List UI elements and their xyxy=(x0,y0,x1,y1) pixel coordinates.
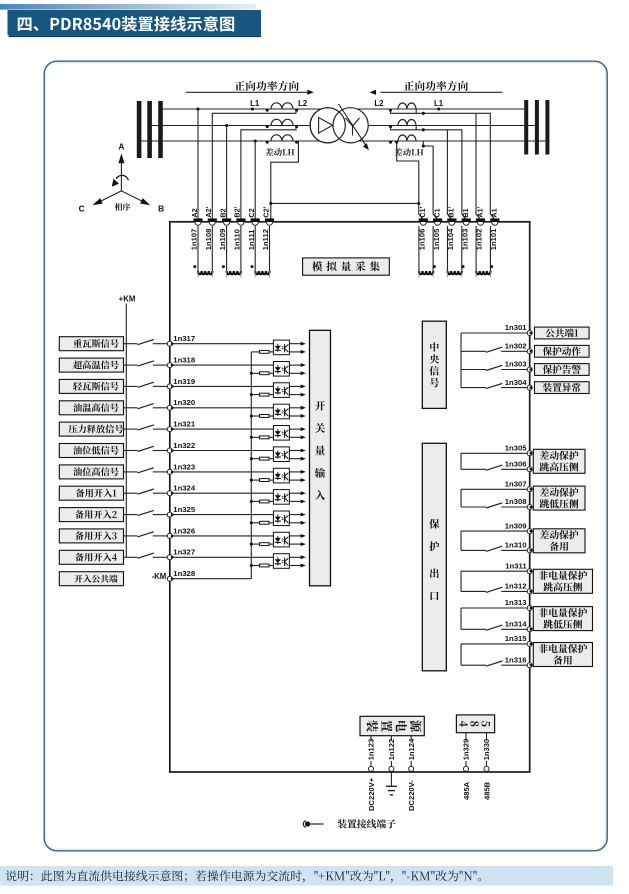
svg-text:1n318: 1n318 xyxy=(173,356,196,365)
svg-text:1n124: 1n124 xyxy=(407,738,416,760)
svg-text:A: A xyxy=(118,141,124,151)
svg-text:L1: L1 xyxy=(434,99,444,108)
svg-text:485A: 485A xyxy=(462,781,471,800)
svg-text:1n320: 1n320 xyxy=(173,398,195,407)
svg-text:1n312: 1n312 xyxy=(505,582,527,591)
svg-text:A1': A1' xyxy=(475,206,484,217)
svg-text:1n308: 1n308 xyxy=(505,497,528,506)
svg-text:B1: B1 xyxy=(461,208,470,217)
svg-text:1n314: 1n314 xyxy=(505,620,528,629)
svg-text:1n326: 1n326 xyxy=(173,526,195,535)
svg-text:A1: A1 xyxy=(490,208,499,217)
svg-text:1n309: 1n309 xyxy=(505,521,527,530)
svg-text:1n323: 1n323 xyxy=(173,462,195,471)
svg-text:DC220V+: DC220V+ xyxy=(367,777,376,811)
svg-text:1n109: 1n109 xyxy=(218,229,227,251)
svg-text:1n316: 1n316 xyxy=(505,655,527,664)
svg-text:1n313: 1n313 xyxy=(505,598,527,607)
svg-text:L1: L1 xyxy=(250,99,260,108)
svg-text:1n319: 1n319 xyxy=(173,377,195,386)
svg-text:C2': C2' xyxy=(261,206,270,217)
svg-text:1n325: 1n325 xyxy=(173,505,196,514)
svg-text:1n122: 1n122 xyxy=(387,739,396,761)
svg-text:1n301: 1n301 xyxy=(505,323,528,332)
svg-text:1n304: 1n304 xyxy=(505,378,528,387)
svg-text:1n302: 1n302 xyxy=(505,342,527,351)
svg-text:1n329: 1n329 xyxy=(462,739,471,761)
svg-text:1n311: 1n311 xyxy=(505,561,527,570)
svg-text:1n305: 1n305 xyxy=(505,444,528,453)
svg-text:1n322: 1n322 xyxy=(173,441,195,450)
svg-text:B2': B2' xyxy=(233,206,242,217)
svg-text:1n123: 1n123 xyxy=(367,739,376,761)
svg-text:DC220V-: DC220V- xyxy=(407,780,416,811)
svg-text:1n303: 1n303 xyxy=(505,360,527,369)
svg-text:1n330: 1n330 xyxy=(482,739,491,761)
svg-text:1n110: 1n110 xyxy=(233,229,242,250)
svg-text:C: C xyxy=(79,203,85,213)
svg-text:C1: C1 xyxy=(432,208,441,217)
svg-text:L2: L2 xyxy=(374,99,384,108)
svg-text:+KM: +KM xyxy=(119,294,136,303)
svg-text:1n108: 1n108 xyxy=(204,229,213,251)
svg-text:B1': B1' xyxy=(447,206,456,217)
svg-text:B2: B2 xyxy=(218,208,227,217)
svg-text:1n112: 1n112 xyxy=(261,229,270,250)
svg-text:1n306: 1n306 xyxy=(505,460,527,469)
svg-text:1n310: 1n310 xyxy=(505,541,527,550)
svg-text:1n315: 1n315 xyxy=(505,634,528,643)
svg-text:L2: L2 xyxy=(298,99,308,108)
svg-text:1n327: 1n327 xyxy=(173,548,195,557)
svg-text:1n317: 1n317 xyxy=(173,334,195,343)
svg-text:A2: A2 xyxy=(190,208,199,217)
svg-text:-KM: -KM xyxy=(152,572,167,581)
svg-text:1n328: 1n328 xyxy=(173,569,196,578)
svg-text:B: B xyxy=(158,203,164,213)
svg-text:A2': A2' xyxy=(204,206,213,217)
svg-text:1n324: 1n324 xyxy=(173,484,196,493)
svg-text:1n307: 1n307 xyxy=(505,480,527,489)
svg-text:1n321: 1n321 xyxy=(173,420,196,429)
svg-text:C2: C2 xyxy=(247,208,256,217)
svg-text:1n107: 1n107 xyxy=(190,229,199,251)
svg-text:C1': C1' xyxy=(418,206,427,217)
svg-text:1n111: 1n111 xyxy=(247,229,256,250)
svg-text:485B: 485B xyxy=(482,781,491,800)
